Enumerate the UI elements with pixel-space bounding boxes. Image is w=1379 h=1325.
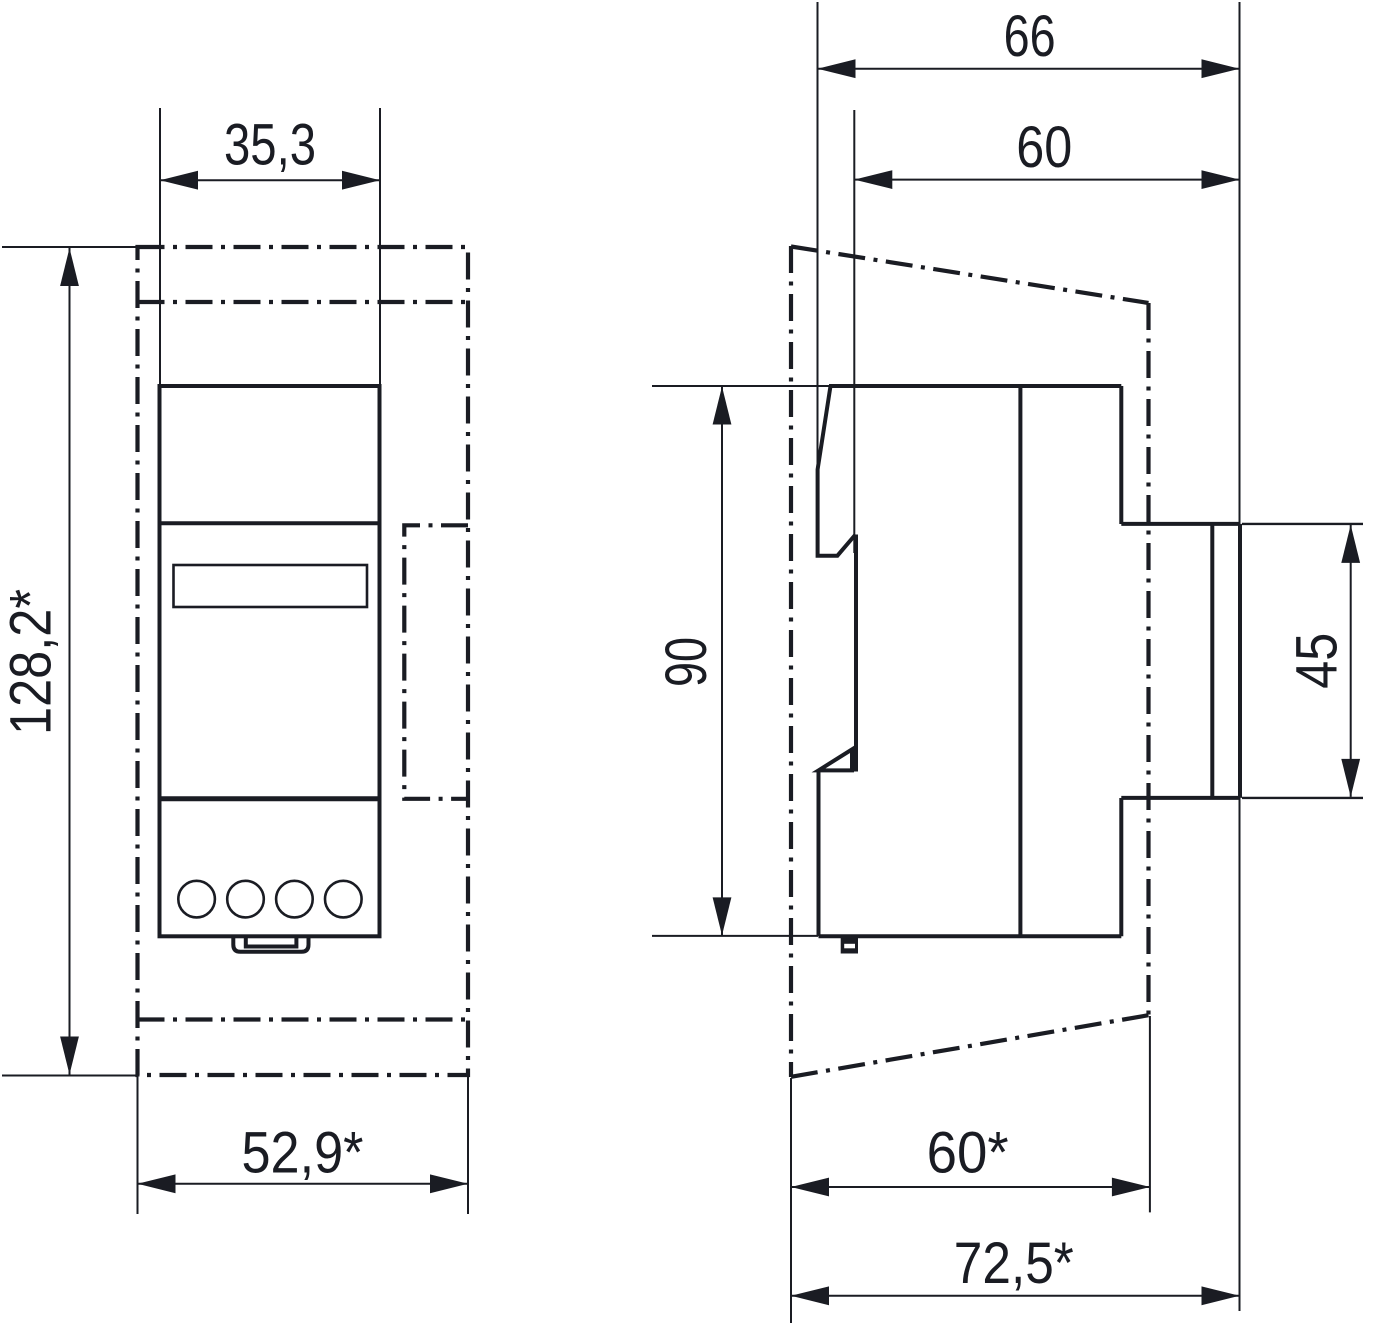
- front view: terminal circle 4: [325, 881, 362, 918]
- side view: body separator line: [1018, 386, 1022, 936]
- dimension 52,9 right extension line: [467, 1075, 469, 1214]
- front view: module lower section line: [160, 796, 380, 801]
- dimension 60* left extension line: [790, 1078, 792, 1323]
- front view: extension line 35,3 left: [159, 108, 161, 386]
- dimension 35,3 line: [160, 171, 380, 190]
- front view: terminal circle 2: [227, 881, 264, 918]
- side view: dash-dot top slant: [791, 247, 1149, 304]
- front view: module outline: [160, 386, 380, 936]
- side view: right edge lower: [1119, 798, 1123, 936]
- side view: left edge lower: [817, 770, 821, 936]
- side view: module bottom: [819, 934, 1122, 938]
- svg-text:60*: 60*: [927, 1121, 1009, 1186]
- dimension 90 top extension line: [652, 385, 830, 387]
- side view: extension line 60 left: [853, 110, 855, 553]
- front view: dash-dot enclosure outline: [138, 247, 469, 1075]
- side view: extension line 66 left: [817, 2, 819, 556]
- side view: bottom DIN clip spring: [819, 749, 853, 770]
- front view: dash-dot inner line top: [138, 300, 469, 304]
- side view: module top: [829, 384, 1121, 388]
- svg-text:45: 45: [1284, 633, 1349, 689]
- svg-text:128,2*: 128,2*: [0, 589, 64, 735]
- dimension 128,2 top extension line: [2, 246, 138, 248]
- front view: DIN clip tab outer: [233, 936, 308, 952]
- dimension 66 line: [818, 59, 1240, 78]
- front view: label window: [174, 565, 368, 607]
- svg-text:35,3: 35,3: [224, 113, 316, 178]
- side view: rail mounting face: [854, 535, 858, 772]
- dimension 45 top extension line: [1242, 523, 1363, 525]
- dimension 90 bottom extension line: [652, 935, 818, 937]
- side view: right edge upper: [1119, 386, 1123, 524]
- side view: release tab: [841, 938, 858, 954]
- dimension 52,9 line: [138, 1174, 469, 1193]
- side view: dash-dot bottom slant: [791, 1015, 1149, 1077]
- svg-text:60: 60: [1016, 115, 1072, 180]
- dimension 60* right extension line: [1149, 1016, 1151, 1212]
- front view: dash-dot inner line bottom: [138, 1017, 469, 1021]
- svg-text:72,5*: 72,5*: [954, 1231, 1074, 1296]
- dimension 128,2 bottom extension line: [2, 1075, 140, 1077]
- dimension 72,5* line: [791, 1286, 1240, 1305]
- dimension 45 line: [1341, 525, 1360, 797]
- side view: flange front face: [1238, 524, 1242, 798]
- side view: right extension line lower: [1239, 798, 1241, 1311]
- svg-text:90: 90: [654, 637, 719, 687]
- side view: dash-dot left vertical: [789, 246, 793, 1077]
- front view: dash-dot flange projection box: [404, 525, 468, 799]
- svg-text:52,9*: 52,9*: [242, 1121, 364, 1186]
- side view: dash-dot right vertical: [1146, 303, 1150, 1015]
- front view: terminal circle 3: [276, 881, 313, 918]
- dimension 60* line: [791, 1178, 1150, 1197]
- dimension 45 bottom extension line: [1242, 797, 1363, 799]
- side view: flange inner vertical: [1210, 524, 1214, 798]
- dimension 90 line: [713, 387, 732, 936]
- front view: module top section line: [160, 521, 380, 525]
- front view: extension line 35,3 right: [379, 108, 381, 386]
- side view: top DIN clip outline: [818, 386, 856, 556]
- side view: flange top: [1121, 522, 1240, 526]
- front view: terminal circle 1: [178, 881, 215, 918]
- dimension 128,2 line: [60, 248, 79, 1075]
- dimension 60 line: [854, 170, 1239, 189]
- front view: DIN clip tab inner: [246, 936, 297, 946]
- side view: flange bottom: [1121, 796, 1240, 800]
- dimension 52,9 left extension line: [137, 1077, 139, 1214]
- svg-text:66: 66: [1004, 4, 1056, 69]
- side view: right extension line upper: [1239, 2, 1241, 524]
